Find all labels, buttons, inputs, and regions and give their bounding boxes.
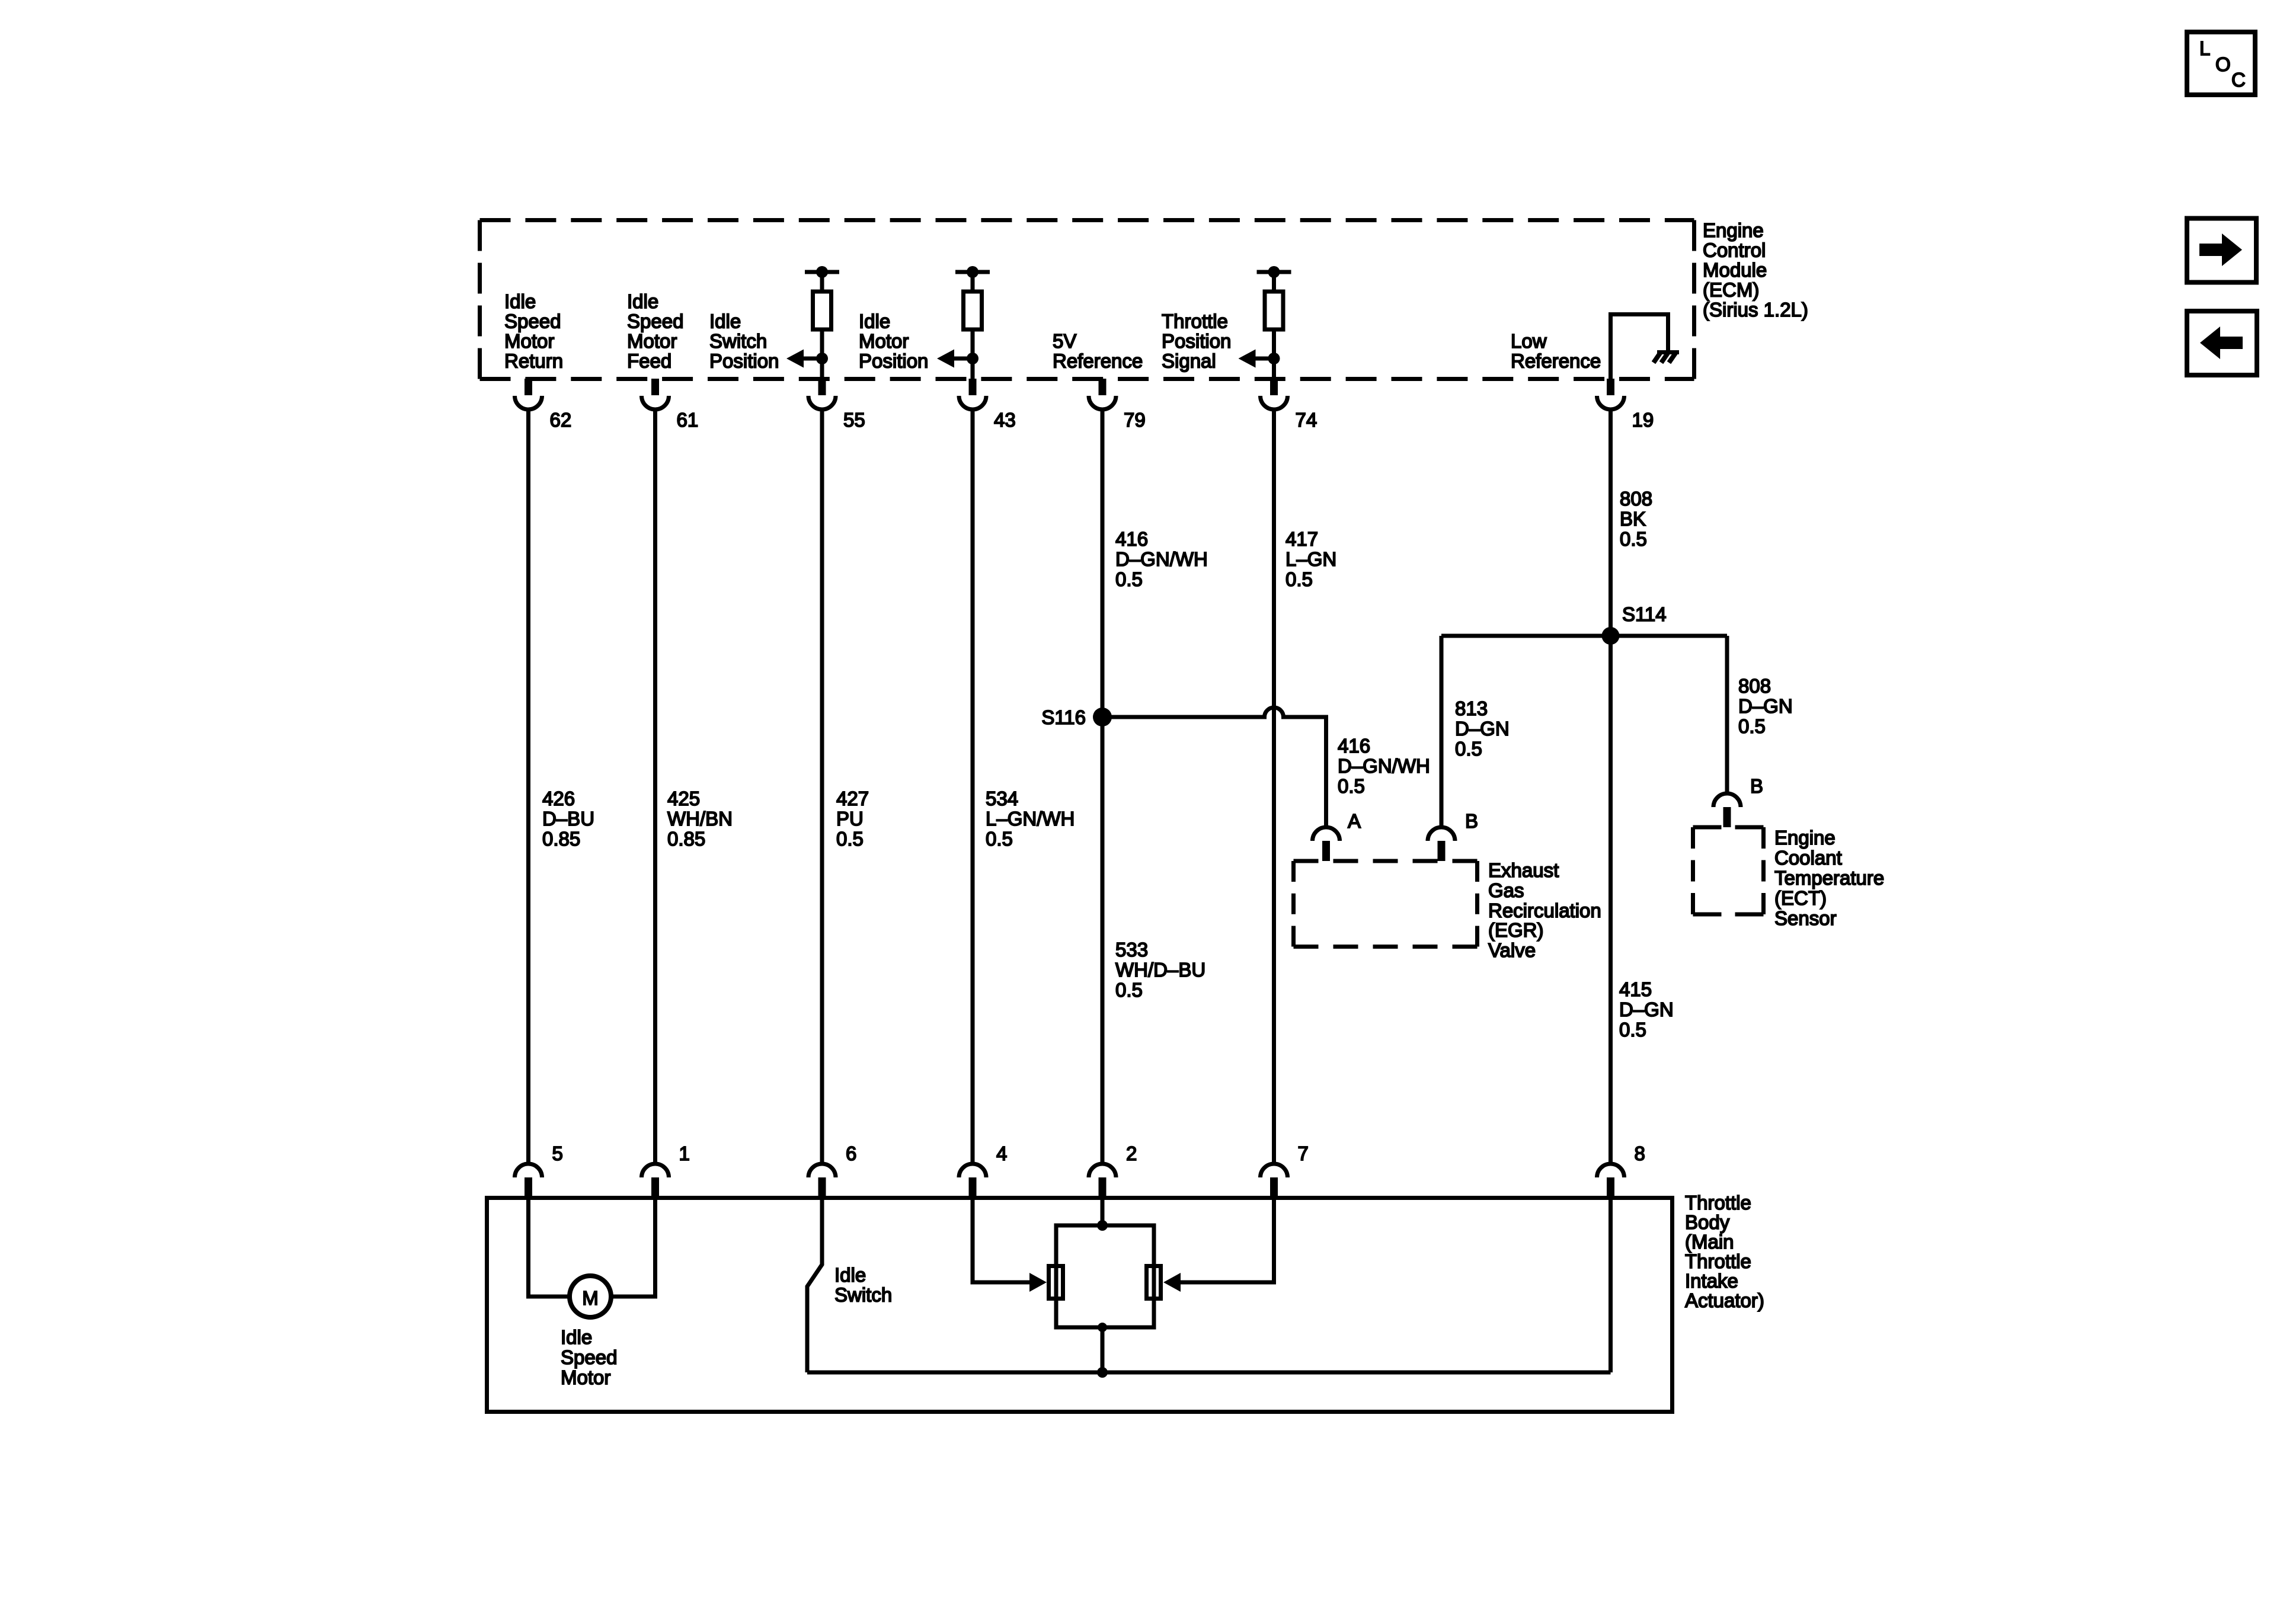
svg-text:7: 7 — [1298, 1142, 1309, 1164]
svg-text:19: 19 — [1632, 409, 1654, 431]
wire pin 8 to bottom bus — [1609, 1198, 1613, 1373]
svg-text:74: 74 — [1296, 409, 1318, 431]
arrow box right — [2187, 219, 2256, 283]
splice S116 — [1093, 708, 1112, 726]
bridge bottom junction — [1098, 1323, 1107, 1332]
connector pin 5 at throttle body — [515, 1164, 542, 1198]
motor M — [570, 1276, 611, 1317]
bottom bus wire — [807, 1371, 1611, 1375]
wire S116 to EGR pin A with hop over wire 74 — [1102, 708, 1326, 828]
bridge frame — [1056, 1225, 1154, 1327]
svg-text:79: 79 — [1124, 409, 1146, 431]
connector pin 55 at ECM — [808, 379, 836, 409]
throttle body box — [487, 1198, 1673, 1412]
connector pin 43 at ECM — [959, 379, 986, 409]
connector pin 1 at throttle body — [642, 1164, 669, 1198]
svg-text:L: L — [2199, 37, 2210, 59]
connector pin 74 at ECM — [1261, 379, 1288, 409]
svg-text:43: 43 — [994, 409, 1016, 431]
svg-text:61: 61 — [677, 409, 699, 431]
EGR valve dashed box — [1294, 861, 1478, 947]
wire pin19 to internal ground — [1611, 315, 1668, 379]
ECT sensor dashed box — [1693, 827, 1764, 914]
wire from ECM pin 79 down — [1101, 409, 1105, 1164]
wire from ECM pin 19 down — [1609, 409, 1613, 1164]
wire bridge to bottom bus — [1101, 1327, 1105, 1372]
wire from ECM pin 74 down — [1272, 409, 1276, 1164]
connector pin 8 at throttle body — [1597, 1164, 1625, 1198]
signal arrow at pin 74 — [1239, 350, 1280, 368]
svg-text:6: 6 — [846, 1142, 856, 1164]
wire pin 5 to motor — [529, 1198, 571, 1297]
svg-text:62: 62 — [550, 409, 572, 431]
svg-text:A: A — [1348, 810, 1361, 832]
svg-text:5: 5 — [552, 1142, 563, 1164]
connector pin 4 at throttle body — [959, 1164, 986, 1198]
svg-text:S114: S114 — [1622, 603, 1667, 625]
svg-text:S116: S116 — [1041, 706, 1086, 728]
signal arrow at pin 43 — [937, 350, 978, 368]
connector pin 2 at throttle body — [1089, 1164, 1116, 1198]
svg-text:B: B — [1465, 810, 1478, 832]
resistor pull-up at pin 55 — [805, 266, 839, 379]
connector pin 7 at throttle body — [1261, 1164, 1288, 1198]
connector pin 19 at ECM — [1597, 379, 1625, 409]
signal arrow at pin 55 — [786, 350, 828, 368]
svg-text:M: M — [582, 1287, 599, 1309]
connector pin A at EGR — [1313, 827, 1340, 861]
bridge top junction — [1097, 1220, 1108, 1231]
wire pin 2 to bridge — [1101, 1198, 1105, 1226]
wire from ECM pin 55 down — [820, 409, 824, 1164]
splice S114 — [1602, 627, 1620, 645]
wire 813 to EGR pin B — [1440, 636, 1444, 828]
svg-text:C: C — [2231, 69, 2246, 91]
svg-text:2: 2 — [1126, 1142, 1137, 1164]
arrow box left — [2187, 311, 2257, 375]
ground symbol — [1654, 353, 1679, 363]
connector pin 61 at ECM — [642, 379, 669, 409]
bottom bus junction — [1097, 1367, 1108, 1378]
svg-text:B: B — [1750, 775, 1763, 797]
wire pin 4 wiper arrow — [973, 1198, 1047, 1292]
LOC box — [2187, 32, 2255, 95]
connector pin 6 at throttle body — [808, 1164, 836, 1198]
ECM module dashed box — [480, 220, 1694, 379]
wire from ECM pin 61 down — [653, 409, 657, 1164]
connector pin B at EGR — [1428, 827, 1455, 861]
svg-text:55: 55 — [843, 409, 865, 431]
connector pin 62 at ECM — [515, 379, 542, 409]
wire pin 1 to motor — [610, 1198, 655, 1297]
wire from ECM pin 43 down — [971, 409, 975, 1164]
resistor pull-up at pin 74 — [1257, 266, 1291, 379]
resistor pull-up at pin 43 — [955, 266, 990, 379]
connector pin 79 at ECM — [1089, 379, 1116, 409]
wire 808 to ECT pin B — [1725, 636, 1729, 794]
wire pin 7 wiper arrow — [1163, 1198, 1274, 1292]
idle switch — [807, 1198, 822, 1373]
wire from ECM pin 62 down — [526, 409, 530, 1164]
connector pin B at ECT — [1713, 793, 1741, 827]
svg-text:4: 4 — [996, 1142, 1007, 1164]
pot contact left — [1049, 1266, 1063, 1299]
svg-text:1: 1 — [679, 1142, 690, 1164]
pot contact right — [1147, 1266, 1161, 1299]
wire S114 horizontal — [1441, 634, 1727, 638]
svg-text:8: 8 — [1635, 1142, 1645, 1164]
svg-text:O: O — [2215, 53, 2231, 75]
